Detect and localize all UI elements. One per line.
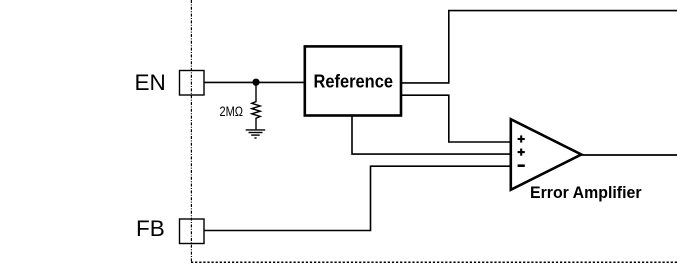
IC boundary dashed border (left vertical segment) xyxy=(190,0,192,263)
resistor 2M ohm (zigzag) xyxy=(252,82,260,129)
wire Reference out2: right, down, to error-amp first + input xyxy=(401,95,511,142)
op-amp input + (first) xyxy=(518,135,525,142)
svg-text:FB: FB xyxy=(136,216,165,241)
pin box FB xyxy=(180,219,205,244)
op-amp U2 Error Amplifier triangle xyxy=(511,119,582,190)
pin box EN xyxy=(180,71,205,96)
op-amp input - (inverting) xyxy=(518,164,525,167)
svg-text:2MΩ: 2MΩ xyxy=(220,104,244,119)
wire FB pin to error-amp inverting input xyxy=(204,166,511,230)
op-amp input + (second) xyxy=(518,149,525,156)
wire Reference bottom pin to error-amp second + input xyxy=(352,116,511,155)
ground symbol xyxy=(246,130,266,138)
svg-text:EN: EN xyxy=(135,70,166,95)
svg-text:Error Amplifier: Error Amplifier xyxy=(530,183,642,202)
wire EN pin to Reference xyxy=(204,81,305,83)
IC boundary dashed border (bottom horizontal segment) xyxy=(191,261,677,263)
wire Reference out1: right then up then to top-right edge xyxy=(401,11,677,83)
Reference block U1 xyxy=(305,46,401,115)
svg-text:Reference: Reference xyxy=(314,71,394,91)
wire op-amp output to right edge xyxy=(580,154,677,156)
junction node on EN wire xyxy=(252,79,259,86)
